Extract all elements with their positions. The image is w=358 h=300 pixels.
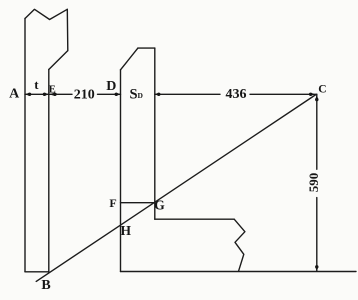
plate2 left edge: [120, 70, 122, 272]
plate1 bottom edge: [25, 271, 49, 273]
arrowhead 590 top: [315, 98, 318, 101]
plate1 chamfer: [49, 51, 68, 70]
plate2 break zigzag: [234, 219, 245, 271]
svg-text:436: 436: [226, 87, 247, 102]
svg-text:E: E: [49, 85, 56, 96]
svg-text:t: t: [34, 77, 39, 92]
plate2 top edge: [138, 47, 155, 49]
arrowhead 436 left: [157, 93, 160, 96]
svg-text:S: S: [130, 87, 138, 103]
plate2 right edge: [154, 48, 156, 219]
baseline bottom edge: [121, 271, 357, 273]
svg-text:G: G: [154, 198, 165, 213]
arrowhead 210 right: [115, 93, 118, 96]
svg-text:D: D: [138, 91, 144, 100]
svg-text:210: 210: [74, 87, 95, 102]
dimension line 590 segment2: [316, 198, 318, 271]
svg-text:C: C: [318, 84, 326, 96]
dimension line 590 segment1: [316, 94, 318, 169]
plate1 top break line: [25, 9, 67, 19]
arrowhead 436 right: [309, 93, 312, 96]
arrowhead t right: [43, 93, 46, 96]
dimension line 210 segment2: [98, 93, 121, 95]
dimension line 436 segment1: [155, 93, 220, 95]
svg-text:B: B: [41, 278, 50, 293]
arrowhead 590 bottom: [315, 265, 318, 268]
arrowhead t left: [28, 93, 31, 96]
line F G: [121, 202, 155, 204]
plate1 right lower edge: [48, 70, 50, 272]
diagonal line B C: [36, 95, 316, 282]
dimension line 436 segment2: [250, 93, 317, 95]
svg-text:H: H: [121, 223, 132, 238]
plate1 left edge: [24, 19, 26, 272]
arrowhead 210 left: [53, 93, 56, 96]
plate1 right upper edge: [66, 9, 69, 50]
plate2 ledge edge: [155, 218, 234, 220]
plate2 chamfer: [121, 48, 138, 70]
dimension line t and 210 segment1: [25, 93, 72, 95]
svg-text:A: A: [9, 87, 20, 102]
svg-text:590: 590: [306, 173, 321, 193]
svg-text:F: F: [109, 196, 116, 210]
svg-text:D: D: [106, 79, 116, 94]
